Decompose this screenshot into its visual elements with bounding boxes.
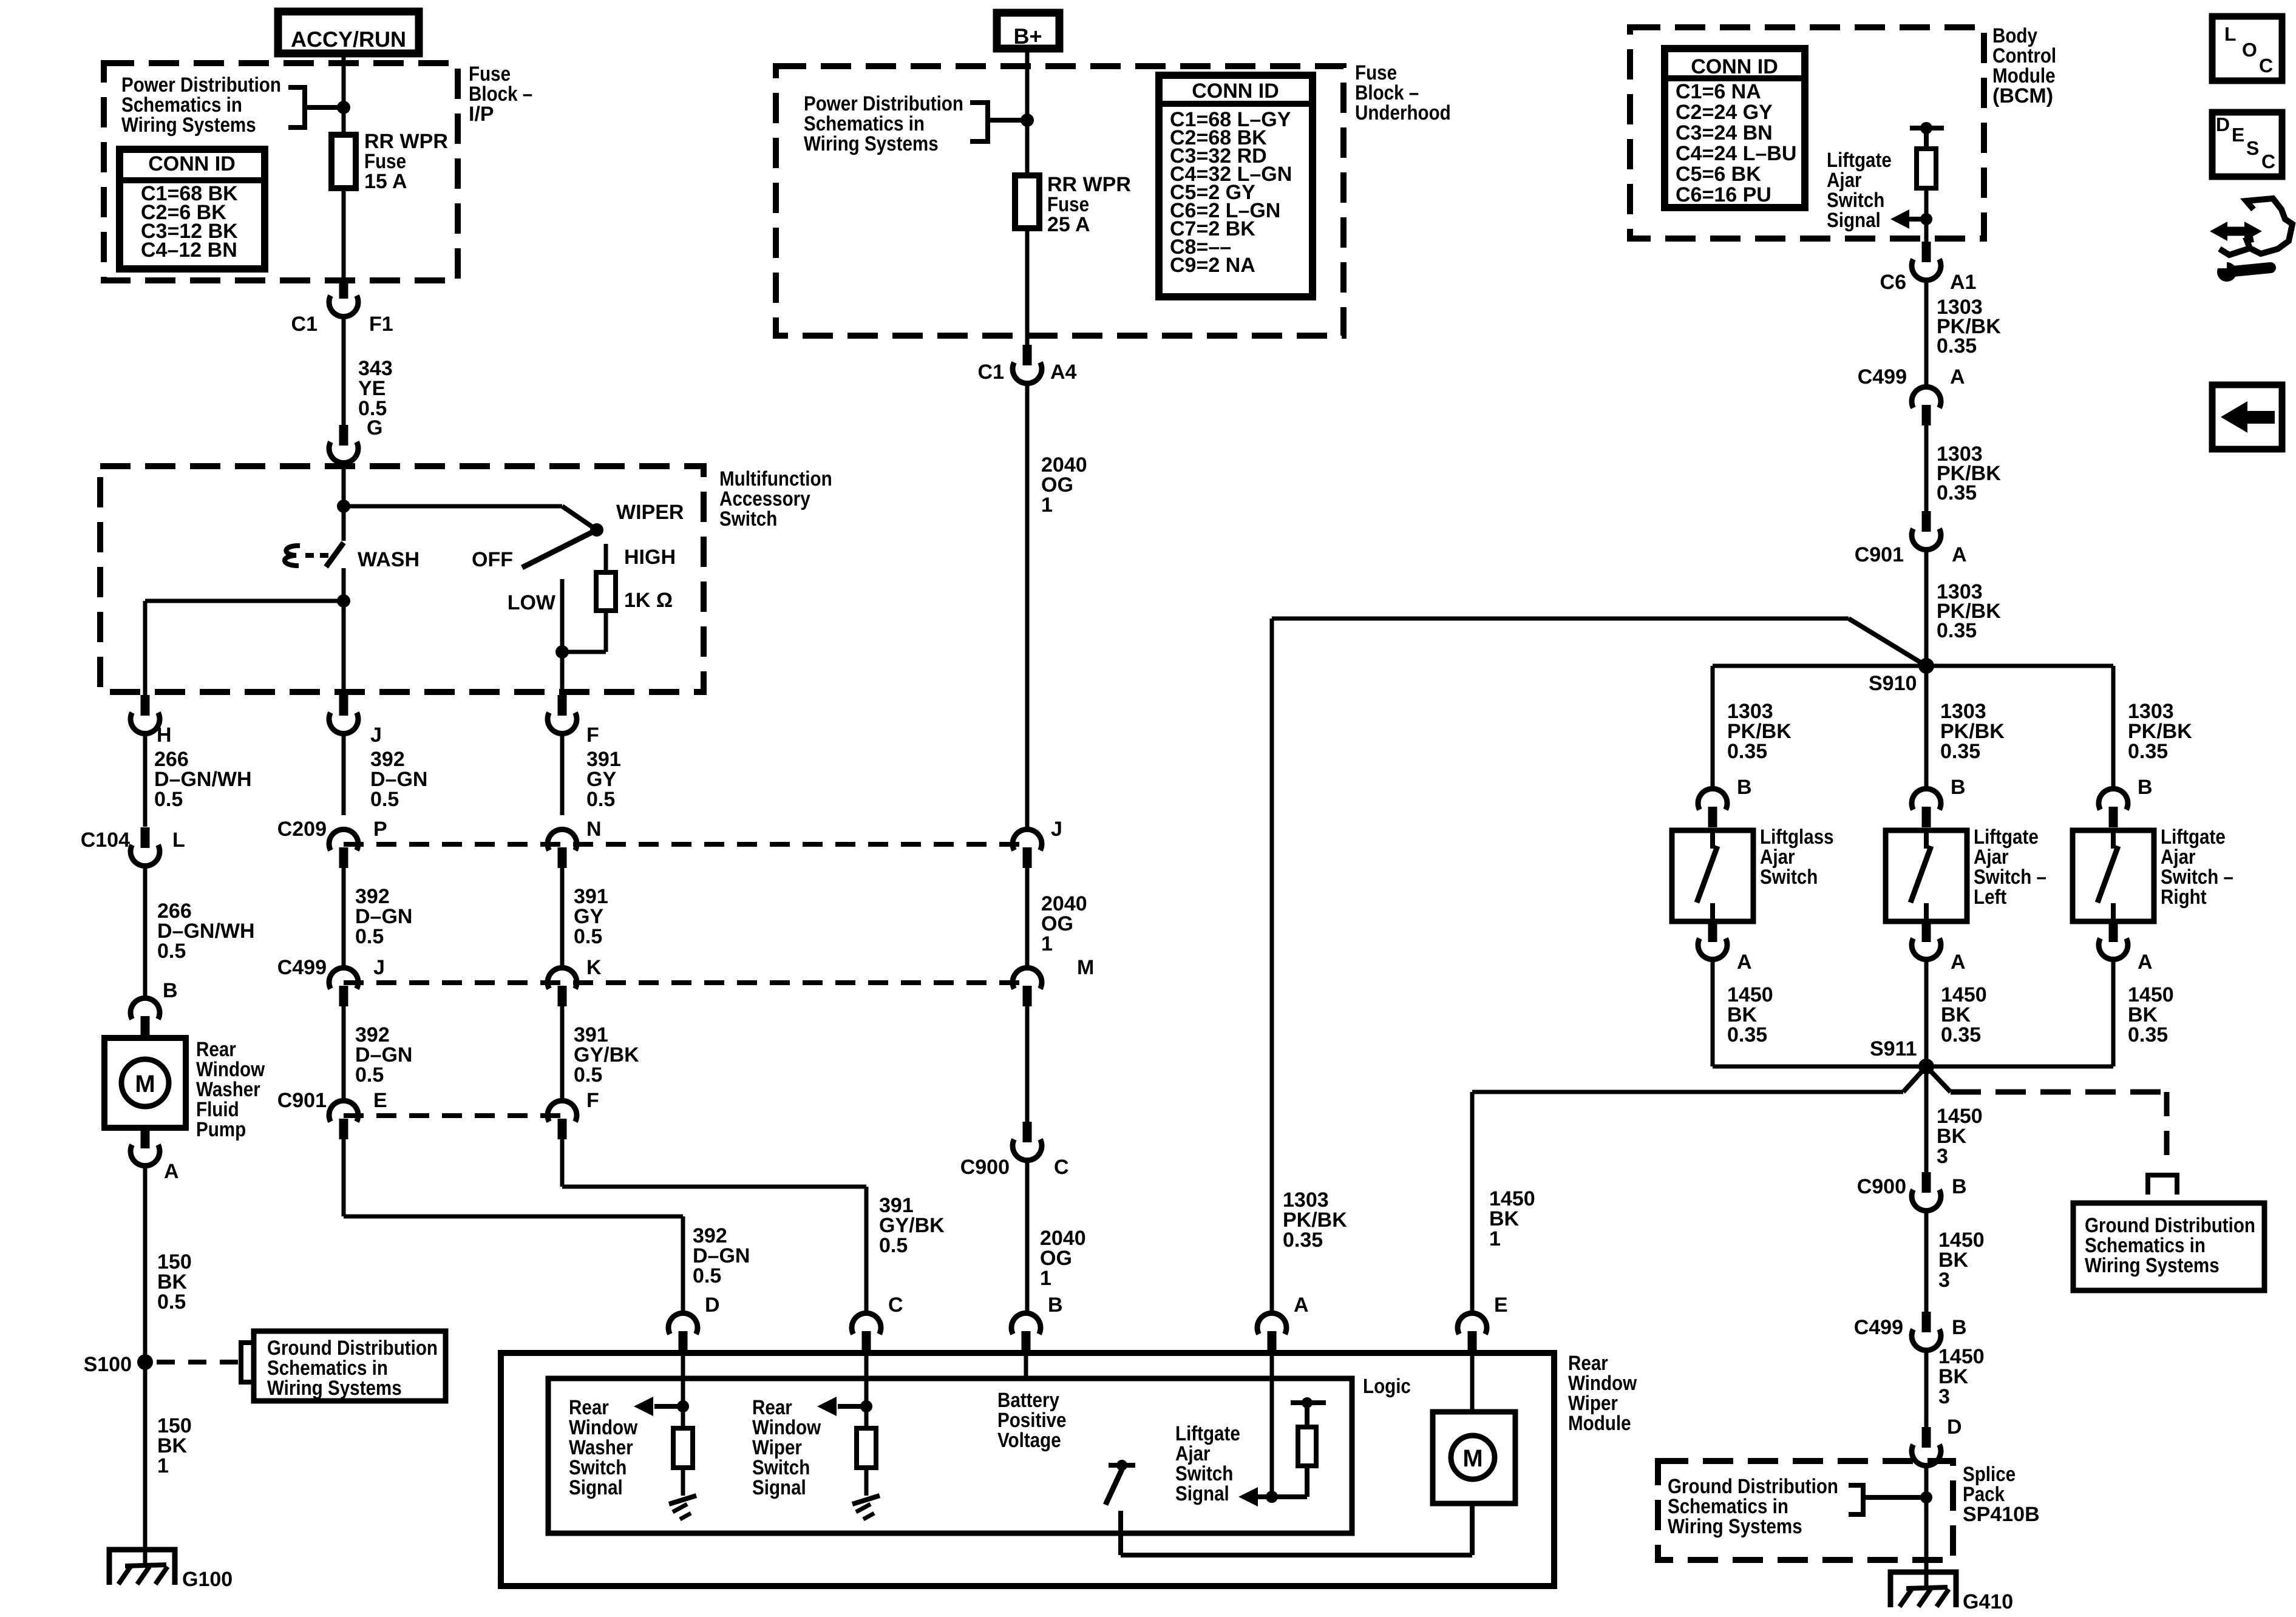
- power node ACCY/RUN: [278, 12, 419, 53]
- wire 1450 BK 0.35 (liftgate ajar switch - left): [1924, 959, 1929, 1066]
- svg-text:B+: B+: [1013, 24, 1042, 49]
- svg-text:A: A: [1737, 951, 1752, 974]
- svg-text:A4: A4: [1050, 361, 1077, 384]
- wire 392 D-GN 0.5 lower: [342, 1006, 346, 1101]
- svg-text:A: A: [1950, 365, 1965, 388]
- body control module dashed box: [1630, 27, 1984, 239]
- wiper signal branch wire: [864, 1353, 869, 1428]
- svg-text:Underhood: Underhood: [1355, 101, 1451, 124]
- svg-text:0.35: 0.35: [1941, 1023, 1981, 1046]
- bracket (splice pack): [1849, 1485, 1863, 1514]
- svg-text:S910: S910: [1869, 672, 1917, 695]
- svg-text:C900: C900: [960, 1156, 1010, 1179]
- wire 391 GY 0.5 mid: [560, 867, 565, 968]
- LOW contact wire: [560, 579, 565, 652]
- svg-text:O: O: [2242, 39, 2257, 61]
- svg-text:C6: C6: [1880, 271, 1906, 294]
- washer signal arrow: [654, 1404, 683, 1409]
- note Ground Distribution Schematics (right): [2073, 1203, 2264, 1290]
- svg-text:D: D: [1947, 1415, 1962, 1439]
- svg-text:0.35: 0.35: [1937, 481, 1977, 504]
- wire 1303 PK/BK 0.35 (2): [1924, 425, 1929, 514]
- svg-text:M: M: [1077, 956, 1094, 979]
- wire F down inside box: [560, 652, 565, 692]
- ground G100: [109, 1550, 175, 1585]
- wire H to connector: [143, 692, 148, 696]
- svg-text:B: B: [2138, 776, 2153, 799]
- svg-text:Wiring Systems: Wiring Systems: [1668, 1515, 1802, 1538]
- wire E to motor: [1470, 1353, 1475, 1412]
- connector F (mult.switch): [558, 695, 567, 716]
- svg-text:C499: C499: [1854, 1316, 1903, 1339]
- wire 392 D-GN 0.5 mid: [342, 867, 346, 968]
- liftgate pull-up path (module): [1272, 1494, 1307, 1499]
- svg-text:0.5: 0.5: [355, 1063, 384, 1086]
- wire into switch: [342, 466, 346, 506]
- svg-text:C: C: [1054, 1156, 1069, 1179]
- svg-text:C900: C900: [1857, 1175, 1906, 1198]
- splice junction dot SP410B: [1920, 1491, 1932, 1503]
- connector C900 C (B+ wire): [1023, 1122, 1032, 1142]
- svg-text:L: L: [2224, 23, 2237, 45]
- BCM pull-up tee: [1910, 126, 1944, 131]
- junction dot (underhood): [1021, 114, 1034, 127]
- table CONN ID (BCM): [1665, 49, 1805, 208]
- svg-text:B: B: [1952, 1316, 1967, 1339]
- wire washer switch signal to module D: [342, 1139, 346, 1216]
- svg-text:0.5: 0.5: [157, 1290, 186, 1314]
- splice S100: [137, 1354, 153, 1370]
- wire through splice pack: [1924, 1465, 1929, 1588]
- connector C1 A4: [1023, 345, 1032, 365]
- WIPER pivot dot: [590, 523, 603, 537]
- svg-text:15 A: 15 A: [364, 170, 407, 193]
- svg-text:B: B: [1737, 776, 1752, 799]
- svg-text:J: J: [1051, 818, 1062, 841]
- svg-text:C499: C499: [277, 956, 327, 979]
- svg-text:OFF: OFF: [472, 548, 513, 571]
- icon liftgate with arrows: [2246, 198, 2292, 254]
- svg-text:0.5: 0.5: [154, 788, 183, 811]
- svg-text:B: B: [163, 979, 178, 1002]
- connector J (mult.switch): [339, 695, 348, 716]
- HIGH contact wire: [604, 544, 608, 572]
- svg-text:A: A: [1951, 951, 1966, 974]
- svg-text:Right: Right: [2161, 886, 2207, 909]
- wire switch to motor: [1118, 1511, 1123, 1555]
- svg-text:0.5: 0.5: [879, 1234, 908, 1257]
- svg-text:Wiring Systems: Wiring Systems: [2085, 1254, 2220, 1277]
- rear window washer fluid pump box: [104, 1038, 186, 1128]
- liftgate ajar switch - right contacts: [2111, 830, 2116, 849]
- svg-text:0.5: 0.5: [355, 925, 384, 948]
- fuse RR WPR 25A: [1015, 175, 1039, 228]
- svg-text:Voltage: Voltage: [997, 1429, 1061, 1452]
- WASH momentary spring symbol: [285, 546, 300, 566]
- svg-text:0.5: 0.5: [370, 788, 399, 811]
- power node B+: [997, 13, 1059, 49]
- svg-text:S911: S911: [1870, 1037, 1917, 1060]
- fuse block I/P dashed box: [104, 63, 458, 280]
- wire 266 D-GN/WH 0.5 lower: [143, 866, 148, 998]
- svg-text:HIGH: HIGH: [624, 546, 676, 569]
- svg-text:Left: Left: [1974, 886, 2006, 909]
- washer signal junction dot: [677, 1400, 689, 1412]
- svg-text:CONN ID: CONN ID: [1192, 80, 1279, 103]
- bracket to wire (I/P): [288, 87, 305, 127]
- connector C900 B (right): [1922, 1172, 1931, 1193]
- liftglass ajar switch box: [1672, 830, 1753, 921]
- liftgate signal junction dot (module): [1266, 1491, 1278, 1503]
- svg-text:F1: F1: [369, 313, 393, 336]
- wiper branch resistor: [857, 1428, 876, 1468]
- svg-text:C104: C104: [81, 829, 130, 852]
- svg-text:Signal: Signal: [569, 1476, 623, 1499]
- S910 rail: [1713, 664, 2113, 668]
- svg-text:F: F: [586, 1089, 599, 1112]
- svg-text:LOW: LOW: [508, 591, 556, 614]
- wire 1303 PK/BK 0.35 (3): [1924, 549, 1929, 666]
- svg-text:J: J: [373, 956, 385, 979]
- wire B+ to fuse block: [1025, 49, 1030, 175]
- wire 1303 PK/BK 0.35 (1): [1924, 280, 1929, 388]
- svg-text:S: S: [2246, 137, 2259, 159]
- bracket to ground note (S100): [241, 1343, 254, 1382]
- svg-text:0.5: 0.5: [586, 788, 615, 811]
- connector A of washer pump: [141, 1128, 150, 1148]
- wire 343 YE 0.5: [342, 316, 346, 425]
- wire to WIPER pivot: [344, 504, 562, 509]
- drop to liftgate left switch: [1924, 666, 1929, 789]
- svg-text:C901: C901: [1855, 543, 1904, 566]
- svg-text:C499: C499: [1858, 365, 1907, 388]
- svg-text:B: B: [1952, 1175, 1967, 1198]
- svg-text:1: 1: [1040, 1267, 1051, 1290]
- svg-text:C1: C1: [291, 313, 318, 336]
- svg-text:G100: G100: [182, 1568, 233, 1591]
- washer signal branch wire: [681, 1353, 685, 1428]
- icon wrench: [2217, 262, 2237, 282]
- svg-text:0.35: 0.35: [1727, 740, 1767, 763]
- svg-text:K: K: [586, 956, 602, 979]
- wire 391 GY 0.5 upper: [560, 733, 565, 815]
- wire 1450 BK 3 (3): [1924, 1350, 1929, 1431]
- wire fuse to connector C1/F1: [342, 188, 346, 279]
- battery feed wire into logic: [1024, 1353, 1028, 1378]
- svg-text:0.5: 0.5: [574, 925, 602, 948]
- liftgate pull-up resistor (module): [1298, 1427, 1316, 1466]
- svg-text:B: B: [1048, 1293, 1063, 1317]
- connector row C209: dashed line: [344, 842, 1027, 847]
- svg-text:C901: C901: [277, 1089, 327, 1112]
- wiper switch blade (OFF position): [522, 530, 597, 568]
- drop to liftgate right switch: [2111, 666, 2116, 789]
- svg-text:0.35: 0.35: [1937, 334, 1977, 358]
- svg-text:WIPER: WIPER: [616, 501, 684, 524]
- wire 150 BK 0.5: [143, 1163, 148, 1362]
- svg-text:C: C: [888, 1293, 903, 1317]
- svg-text:F: F: [586, 724, 599, 747]
- svg-text:Signal: Signal: [1175, 1482, 1229, 1505]
- wire 150 BK 1: [143, 1362, 148, 1566]
- table CONN ID (fuse block I/P): [120, 149, 265, 269]
- WASH linkage dashes: [305, 553, 314, 558]
- connector A of liftglass ajar switch: [1708, 921, 1717, 942]
- washer branch resistor: [673, 1428, 693, 1468]
- fuse RR WPR 15A: [331, 135, 356, 188]
- connector C901 A (BCM): [1922, 511, 1931, 532]
- connector A of liftgate ajar switch - right: [2109, 921, 2118, 942]
- svg-text:Signal: Signal: [1827, 209, 1881, 232]
- resistor 1K in switch: [596, 572, 616, 611]
- svg-text:0.5: 0.5: [574, 1063, 602, 1086]
- svg-text:M: M: [1462, 1445, 1483, 1472]
- multifunction accessory switch dashed box: [100, 466, 704, 692]
- svg-text:A: A: [2138, 951, 2153, 974]
- svg-text:A1: A1: [1950, 271, 1976, 294]
- svg-text:25 A: 25 A: [1047, 213, 1090, 236]
- wire 392 D-GN 0.5 upper: [342, 733, 346, 815]
- svg-text:E: E: [373, 1089, 387, 1112]
- svg-text:0.35: 0.35: [2128, 740, 2168, 763]
- svg-text:3: 3: [1938, 1269, 1950, 1292]
- svg-text:0.5: 0.5: [693, 1264, 721, 1287]
- svg-text:CONN ID: CONN ID: [1691, 55, 1778, 78]
- svg-text:SP410B: SP410B: [1963, 1503, 2040, 1526]
- svg-text:D: D: [705, 1293, 720, 1317]
- connector C6 A1: [1922, 242, 1931, 262]
- connector C1 F1: [339, 278, 348, 299]
- junction LOW/HIGH: [562, 650, 606, 654]
- wire 2040 OG 1 (upper): [1025, 383, 1030, 830]
- svg-text:CONN ID: CONN ID: [148, 152, 236, 175]
- svg-text:0.35: 0.35: [1940, 740, 1980, 763]
- svg-text:C4–12 BN: C4–12 BN: [141, 239, 237, 262]
- svg-text:3: 3: [1937, 1145, 1948, 1168]
- ground (washer branch): [669, 1496, 696, 1504]
- svg-text:C4=24 L–BU: C4=24 L–BU: [1676, 142, 1796, 165]
- svg-text:C3=24 BN: C3=24 BN: [1676, 121, 1773, 144]
- junction dot to washer pump branch: [337, 594, 350, 608]
- svg-text:D: D: [2216, 114, 2230, 135]
- liftgate ajar switch - left contacts: [1924, 830, 1929, 849]
- svg-text:G: G: [367, 416, 382, 439]
- svg-text:C9=2 NA: C9=2 NA: [1170, 254, 1255, 277]
- connector C499 B (right): [1922, 1312, 1931, 1332]
- wiper motor: [1451, 1436, 1495, 1479]
- svg-text:N: N: [586, 818, 602, 841]
- wiper signal arrow: [838, 1404, 866, 1409]
- svg-text:(BCM): (BCM): [1992, 84, 2053, 107]
- svg-text:B: B: [1951, 776, 1966, 799]
- icon back arrow: [2212, 385, 2282, 449]
- wire module A to S910: [1270, 619, 1274, 1314]
- S911 rail: [1713, 1065, 2113, 1069]
- svg-text:Module: Module: [1568, 1412, 1631, 1435]
- svg-text:1: 1: [1041, 932, 1053, 955]
- connector H: [141, 695, 150, 716]
- ground (wiper branch): [852, 1496, 880, 1504]
- svg-text:C: C: [2261, 151, 2275, 172]
- svg-text:Logic: Logic: [1363, 1375, 1411, 1398]
- svg-text:H: H: [157, 724, 172, 747]
- svg-text:ACCY/RUN: ACCY/RUN: [291, 27, 406, 52]
- svg-text:C1: C1: [978, 361, 1004, 384]
- svg-text:1: 1: [1041, 493, 1053, 517]
- svg-text:E: E: [1494, 1293, 1508, 1317]
- svg-text:L: L: [172, 829, 185, 852]
- WASH switch: wire upper contact: [342, 506, 346, 541]
- wire 1450 BK 0.35 (liftgate ajar switch - right): [2111, 959, 2116, 1066]
- svg-text:C1=6 NA: C1=6 NA: [1676, 80, 1761, 103]
- svg-text:Pump: Pump: [196, 1118, 246, 1141]
- wire J to connector: [342, 692, 346, 696]
- wire 391 GY/BK 0.5 lower: [560, 1006, 565, 1101]
- table CONN ID (underhood): [1159, 75, 1313, 297]
- svg-text:1: 1: [157, 1454, 169, 1477]
- svg-text:A: A: [1952, 543, 1967, 566]
- svg-text:J: J: [370, 724, 382, 747]
- BCM pull-up resistor: [1917, 149, 1936, 188]
- svg-text:P: P: [373, 818, 387, 841]
- icon DESC: [2212, 112, 2282, 177]
- wire F to connector: [560, 692, 565, 696]
- svg-text:C6=16 PU: C6=16 PU: [1676, 183, 1771, 206]
- wiper motor box: [1433, 1412, 1515, 1503]
- svg-text:Wiring Systems: Wiring Systems: [267, 1377, 402, 1400]
- svg-text:1: 1: [1489, 1227, 1501, 1250]
- liftglass ajar switch contacts: [1710, 830, 1715, 849]
- svg-text:1K Ω: 1K Ω: [624, 589, 673, 612]
- dashed link S100 to note: [157, 1360, 238, 1364]
- svg-text:0.35: 0.35: [1283, 1229, 1323, 1252]
- wire 2040 OG to module B: [1025, 1160, 1030, 1314]
- svg-text:0.35: 0.35: [2128, 1023, 2168, 1046]
- junction node in switch: [337, 500, 350, 513]
- wiper signal junction dot: [860, 1400, 872, 1412]
- wire 1450 BK 3 (2): [1924, 1210, 1929, 1313]
- splice S910: [1918, 658, 1934, 674]
- svg-text:Wiring Systems: Wiring Systems: [121, 114, 256, 137]
- wire 2040 OG 1 (lower) to C900: [1025, 1006, 1030, 1122]
- liftgate signal arrow (module): [1238, 1487, 1258, 1507]
- wire fuse to connector C1/A4: [1025, 228, 1030, 345]
- wire 1450 BK 3 (1): [1924, 1066, 1929, 1173]
- liftgate signal wire (module): [1270, 1353, 1274, 1497]
- WASH switch blade: [326, 543, 344, 567]
- junction dot on B+ feed (I/P): [337, 101, 350, 114]
- connector row C499: dashed line: [344, 980, 1027, 985]
- liftgate ajar switch symbol (module): [1109, 1463, 1135, 1468]
- ground G410: [1890, 1572, 1956, 1607]
- svg-text:0.5: 0.5: [157, 940, 186, 963]
- svg-text:C209: C209: [277, 818, 327, 841]
- svg-text:3: 3: [1938, 1385, 1950, 1408]
- svg-text:M: M: [135, 1071, 155, 1097]
- wire wiper switch signal to module C: [560, 1139, 565, 1187]
- splice S911: [1918, 1059, 1934, 1074]
- wire ACCY/RUN to fuse: [342, 57, 346, 137]
- svg-text:WASH: WASH: [358, 548, 419, 571]
- dashed branch S911 to ground note: [1926, 1066, 1951, 1092]
- note Ground Distribution Schematics (S100): [254, 1331, 446, 1401]
- svg-text:C5=6 BK: C5=6 BK: [1676, 163, 1761, 186]
- wire S911 to module E: [1903, 1066, 1926, 1092]
- svg-text:Switch: Switch: [719, 507, 777, 531]
- bracket (ground note right): [2148, 1175, 2177, 1195]
- svg-text:G410: G410: [1963, 1590, 2013, 1613]
- liftgate pull-up tee (module): [1305, 1403, 1309, 1427]
- liftgate ajar switch - right box: [2073, 830, 2154, 921]
- wire resistor to signal node: [1924, 188, 1929, 242]
- svg-text:A: A: [164, 1160, 179, 1183]
- rear window wiper module box: [501, 1353, 1554, 1586]
- svg-text:E: E: [2232, 124, 2244, 146]
- svg-text:Switch: Switch: [1760, 866, 1818, 889]
- WASH lower contact wire: [342, 568, 346, 601]
- bracket to wire (underhood): [970, 103, 988, 141]
- drop to liftglass switch: [1711, 666, 1715, 789]
- wiper branch wire to ground: [864, 1468, 869, 1496]
- svg-text:0.35: 0.35: [1937, 619, 1977, 642]
- wire J down inside box: [342, 601, 346, 692]
- splice pack SP410B dashed box: [1658, 1461, 1953, 1560]
- washer pump motor: [121, 1059, 169, 1107]
- wire 266 D-GN/WH 0.5 upper: [143, 733, 148, 827]
- liftgate ajar switch signal arrow (BCM): [1920, 213, 1932, 225]
- svg-text:I/P: I/P: [469, 103, 494, 126]
- connector row C901: dashed line: [344, 1113, 562, 1118]
- fuse block underhood dashed box: [776, 66, 1343, 336]
- wire to left branch: [145, 599, 344, 603]
- wire 1450 BK 0.35 (liftglass ajar switch): [1711, 959, 1715, 1066]
- connector A of liftgate ajar switch - left: [1922, 921, 1931, 942]
- svg-text:Wiring Systems: Wiring Systems: [804, 132, 939, 155]
- svg-text:Signal: Signal: [752, 1476, 806, 1499]
- svg-text:A: A: [1294, 1293, 1309, 1317]
- washer branch wire to ground: [681, 1468, 685, 1496]
- svg-text:C: C: [2259, 55, 2273, 76]
- icon LOC: [2212, 16, 2282, 81]
- logic box: [548, 1378, 1352, 1533]
- liftgate ajar switch - left box: [1886, 830, 1967, 921]
- svg-text:C2=24 GY: C2=24 GY: [1676, 101, 1773, 124]
- svg-text:S100: S100: [84, 1353, 132, 1376]
- svg-text:0.35: 0.35: [1727, 1023, 1767, 1046]
